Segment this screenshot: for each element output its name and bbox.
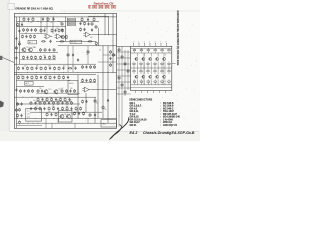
resistor R125 — [88, 40, 89, 42]
wire left bus A — [15, 17, 17, 128]
resistor R508 — [66, 107, 68, 108]
wire frame-to-IC y46 — [117, 45, 131, 47]
resistor R511 — [80, 107, 82, 108]
resistor R116 — [23, 28, 25, 29]
svg-text:0.5: 0.5 — [99, 50, 101, 52]
resistor R260 — [82, 65, 84, 66]
resistor R186 — [113, 53, 115, 54]
resistor R172 — [23, 56, 25, 57]
svg-text:AF 2: AF 2 — [26, 82, 30, 85]
svg-text:6: 6 — [155, 42, 156, 44]
resistor R275 — [19, 108, 21, 109]
IC wire Q10 — [164, 79, 166, 84]
IC inner bottom wire — [131, 87, 172, 89]
svg-text:33k: 33k — [36, 65, 39, 67]
capacitor C258 — [51, 113, 53, 114]
capacitor C171 — [50, 40, 52, 41]
capacitor C503 — [44, 107, 46, 108]
svg-text:6k8: 6k8 — [46, 75, 49, 77]
switch contact box S1c — [67, 22, 75, 24]
wire x78 drop — [77, 75, 79, 119]
wire frame-to-IC y88 — [117, 87, 131, 89]
resistor R272 — [19, 120, 21, 121]
output pair box — [59, 111, 73, 123]
capacitor C204 — [36, 67, 38, 68]
resistor R206 — [45, 66, 47, 67]
resistor R174 — [31, 56, 33, 57]
wire y41 upper — [56, 40, 96, 42]
wire vertical x105 — [104, 14, 106, 36]
resistor R257 — [46, 113, 48, 114]
capacitor C191 — [26, 35, 28, 36]
resistor R236 — [37, 98, 39, 99]
resistor R263 — [94, 65, 96, 66]
wire frame-to-IC y64 — [117, 63, 131, 65]
svg-text:1k5: 1k5 — [33, 100, 36, 102]
capacitor C308 — [54, 76, 56, 77]
IC resistor RQ13 — [133, 63, 135, 64]
resistor R253 — [94, 79, 96, 80]
resistor R117 — [27, 28, 29, 29]
IC resistor RQ4 — [154, 50, 157, 51]
capacitor C261 — [86, 65, 88, 66]
transistor T202 — [54, 90, 58, 94]
capacitor C199 — [61, 28, 63, 29]
capacitor C509 — [71, 107, 73, 108]
svg-text:17k: 17k — [104, 109, 107, 111]
resistor R501 — [35, 107, 37, 108]
svg-text:1k8: 1k8 — [24, 65, 27, 67]
transistor T302 — [67, 115, 71, 119]
resistor R532 — [82, 100, 84, 101]
resistor R239 — [51, 98, 53, 99]
IC resistor RQ20 — [140, 71, 142, 72]
handwritten squiggle — [110, 118, 129, 140]
IC transistor Q2 — [142, 58, 145, 61]
IC wire Q6 — [136, 79, 138, 84]
svg-text:10k: 10k — [50, 22, 53, 24]
capacitor C177 — [44, 56, 46, 57]
IC pointer line — [172, 63, 176, 65]
resistor R230 — [20, 89, 22, 90]
svg-text:6k8: 6k8 — [90, 37, 93, 39]
IC bottom pin stubs — [135, 91, 137, 94]
resistor R250 — [82, 79, 84, 80]
resistor R505 — [53, 107, 55, 108]
wire v x41 top — [40, 17, 42, 34]
svg-text:1k: 1k — [21, 22, 23, 24]
wire lower y86 — [16, 85, 44, 87]
IC inner top wire — [131, 47, 172, 49]
capacitor C166 — [15, 37, 17, 38]
svg-text:100n: 100n — [52, 55, 56, 57]
capacitor C237 — [42, 98, 44, 99]
IC resistor RQ21 — [147, 71, 149, 72]
IC wire Q5 — [164, 62, 166, 68]
resistor R225 — [74, 89, 76, 90]
resistor R184 — [110, 50, 112, 51]
resistor R603 — [127, 69, 129, 70]
capacitor C181 — [91, 28, 93, 29]
svg-text:17k: 17k — [76, 111, 79, 113]
resistor R121 — [44, 48, 46, 49]
resistor R120 — [40, 48, 42, 49]
edge mark upper — [0, 56, 2, 60]
svg-text:4: 4 — [144, 42, 145, 44]
IC wire Q3 — [150, 62, 152, 68]
wire v x88 mid — [87, 46, 89, 64]
svg-text:15k: 15k — [33, 47, 36, 49]
svg-text:GRUNDIG RR 3500 AA-T (4BA-BC): GRUNDIG RR 3500 AA-T (4BA-BC) — [15, 7, 53, 10]
capacitor C243 — [69, 98, 71, 99]
IC resistor RQ18 — [168, 63, 170, 64]
capacitor C245 — [107, 99, 109, 100]
resistor R124 — [60, 40, 61, 42]
resistor R169 — [15, 46, 17, 47]
svg-text:EM 84: EM 84 — [69, 83, 74, 85]
resistor R246 — [102, 106, 104, 107]
wire frame-to-IC y58 — [117, 57, 131, 59]
svg-text:LS 4: LS 4 — [27, 114, 30, 116]
capacitor C122 — [49, 48, 51, 49]
resistor R405 — [53, 101, 55, 102]
svg-text:56k: 56k — [20, 75, 23, 77]
resistor R222 — [61, 89, 63, 90]
bottom page margin — [0, 131, 200, 141]
wire divider lower — [14, 74, 96, 76]
resistor R101 — [23, 16, 25, 18]
capacitor C302 — [27, 76, 29, 77]
resistor R273 — [17, 102, 19, 103]
capacitor C173 — [27, 56, 29, 57]
wire y55 right — [103, 54, 117, 56]
IC rail top — [131, 52, 172, 54]
IC column divider 3 — [163, 53, 165, 85]
IC resistor RQ7 — [133, 81, 136, 82]
IC resistor RQ22 — [154, 71, 156, 72]
IC resistor RQ10 — [154, 81, 157, 82]
wire v x47 top — [46, 17, 48, 34]
wire y45.8 to frame — [58, 45, 117, 47]
IC internals box U301 — [131, 46, 172, 90]
junction dots bottom left — [16, 117, 19, 120]
capacitor C221 — [41, 89, 43, 90]
resistor R402 — [39, 101, 41, 102]
resistor R180 — [91, 22, 93, 23]
wire channel divider — [14, 71, 116, 73]
svg-text:3k3: 3k3 — [56, 28, 59, 30]
capacitor C111 — [87, 18, 89, 19]
svg-text:5k6: 5k6 — [43, 55, 46, 57]
svg-text:47k: 47k — [30, 22, 33, 24]
resistor R406 — [57, 101, 59, 102]
resistor R192 — [30, 35, 32, 36]
resistor R106 — [47, 16, 49, 18]
capacitor C107 — [53, 18, 55, 19]
wire opamp out upper — [92, 34, 117, 36]
left page margin — [0, 0, 9, 141]
wire bottom rail y123 — [16, 122, 116, 124]
capacitor R105 — [42, 18, 44, 19]
wire right col x103 — [102, 46, 104, 119]
svg-text:2u2: 2u2 — [72, 65, 75, 67]
capacitor C271 — [21, 114, 23, 115]
resistor R196 — [87, 50, 89, 51]
svg-text:8: 8 — [166, 42, 167, 44]
resistor R190 — [22, 35, 24, 36]
driver stage box — [68, 81, 78, 95]
resistor R128 — [84, 22, 86, 23]
wire cluster v x119 — [118, 46, 120, 126]
resistor R242 — [64, 98, 66, 99]
op-amp U101 — [46, 34, 51, 39]
capacitor C240 — [55, 98, 57, 99]
IC transistor Q1 — [135, 58, 138, 61]
wire rail y26.5 — [16, 26, 66, 28]
scan speckle — [16, 12, 197, 130]
resistor R238 — [46, 98, 48, 99]
capacitor C231 — [24, 89, 26, 90]
switch contact box S1b — [67, 20, 75, 22]
capacitor C168 — [15, 56, 17, 57]
svg-text:330: 330 — [70, 88, 73, 90]
wire frame-to-IC y76 — [117, 75, 131, 77]
capacitor C129 — [84, 28, 86, 29]
svg-text:18k: 18k — [45, 100, 48, 102]
IC wire Q9 — [157, 79, 159, 84]
capacitor C161 — [44, 29, 46, 30]
IC resistor RQ23 — [161, 71, 163, 72]
svg-text:AF 1: AF 1 — [29, 41, 33, 44]
resistor R200 — [18, 66, 20, 67]
wire second rail — [16, 21, 99, 23]
resistor R175 — [35, 56, 37, 57]
IC transistor Q3 — [149, 58, 152, 61]
IC wire Q4 — [157, 62, 159, 68]
wire y59.8 — [20, 59, 56, 61]
wire right col x98 low — [97, 75, 99, 119]
svg-text:2.5-: 2.5- — [27, 111, 30, 113]
IC resistor RQ17 — [161, 63, 163, 64]
resistor R203 — [31, 66, 33, 67]
wire frame-to-IC y52 — [117, 51, 131, 53]
IC resistor RQ16 — [154, 63, 156, 64]
connector box bottom right — [101, 120, 116, 127]
capacitor C305 — [40, 76, 42, 77]
junction dots upper — [23, 15, 26, 18]
paper background — [0, 0, 200, 141]
svg-text:4k7: 4k7 — [96, 103, 99, 105]
svg-text:8n2: 8n2 — [66, 106, 69, 108]
resistor R176 — [40, 56, 42, 57]
IC wire Q1 — [136, 62, 138, 68]
transistor T103 — [61, 35, 64, 38]
corner sticker square — [8, 3, 14, 9]
transistor T104 — [65, 35, 68, 38]
capacitor C185 — [110, 57, 112, 58]
transistor T301 — [60, 115, 64, 119]
wire frame-to-IC y70 — [117, 69, 131, 71]
IC wire Q8 — [150, 79, 152, 84]
svg-text:2k2: 2k2 — [40, 22, 43, 24]
resistor R244 — [94, 99, 96, 100]
wire vertical x113 — [112, 14, 114, 73]
svg-text:2k7: 2k7 — [69, 100, 72, 102]
resistor R150 — [17, 23, 19, 24]
resistor R123 — [53, 48, 55, 49]
wire rail y104 lower — [16, 103, 80, 105]
resistor R179 — [53, 56, 55, 57]
wire vertical x108.5 — [108, 16, 110, 35]
wire x108 horiz — [88, 15, 109, 17]
capacitor C151 — [21, 23, 23, 24]
IC wire Q7 — [143, 79, 145, 84]
capacitor C207 — [49, 67, 51, 68]
wire rail y64 — [14, 63, 96, 65]
capacitor C197 — [77, 58, 79, 59]
capacitor C115 — [18, 29, 20, 30]
IC rail mid — [131, 67, 172, 69]
wire cluster v x128 — [127, 50, 129, 90]
wire bottom rail y118 — [14, 117, 116, 119]
resistor R309 — [58, 75, 60, 76]
resistor R605 — [121, 83, 123, 84]
IC resistor RQ1 — [133, 50, 136, 51]
IC resistor RQ12 — [168, 81, 171, 82]
wire opamp out lower — [91, 89, 117, 91]
resistor R502 — [39, 107, 41, 108]
wire x86 drop — [85, 93, 87, 112]
faint page crease — [60, 10, 200, 12]
op-amp U102 — [57, 34, 62, 39]
IC resistor RQ2 — [140, 50, 143, 51]
resistor R127 — [80, 28, 82, 29]
svg-text:12k: 12k — [34, 75, 37, 77]
IC top pin stubs — [133, 44, 135, 47]
resistor R602 — [124, 62, 126, 63]
resistor R510 — [75, 107, 77, 108]
page left edge — [8, 0, 10, 131]
IC resistor RQ3 — [147, 50, 150, 51]
resistor R252 — [90, 79, 92, 80]
capacitor C255 — [78, 112, 80, 113]
svg-text:68k: 68k — [25, 33, 28, 35]
resistor R223 — [66, 89, 68, 90]
capacitor C401 — [35, 101, 37, 102]
resistor R220 — [37, 89, 39, 90]
op-amp U103 — [85, 32, 90, 37]
wire bottom mid y112 — [30, 111, 102, 113]
IC resistor RQ14 — [140, 63, 142, 64]
wire x95 drop — [94, 97, 96, 123]
resistor R208 — [54, 66, 56, 67]
svg-text:10u: 10u — [18, 41, 21, 43]
IC transistor Q8 — [149, 75, 152, 78]
component value labels — [18, 22, 114, 113]
capacitor C213 — [75, 67, 77, 68]
watermark line2 (red CJK blocks) — [89, 5, 117, 8]
switch contact box S1d — [67, 24, 75, 26]
IC transistor Q7 — [142, 75, 145, 78]
resistor R254 — [74, 112, 76, 113]
svg-text:2: 2 — [133, 42, 134, 44]
resistor R205 — [40, 66, 42, 67]
resistor R259 — [55, 113, 57, 114]
IC transistor Q6 — [135, 75, 138, 78]
wire y101.5 — [36, 101, 72, 103]
transistor T201 — [44, 90, 48, 94]
svg-text:4k7: 4k7 — [60, 22, 63, 24]
svg-text:75: 75 — [36, 106, 38, 108]
svg-text:7: 7 — [160, 42, 161, 44]
resistor R130 — [95, 42, 97, 43]
IC resistor RQ9 — [147, 81, 150, 82]
svg-text:RadioFans.CN: RadioFans.CN — [94, 1, 114, 5]
bottom rail ticks — [45, 118, 47, 128]
junction dots lower — [17, 71, 20, 74]
capacitor C234 — [15, 88, 17, 89]
IC wire Q2 — [143, 62, 145, 68]
IC resistor RQ11 — [161, 81, 164, 82]
svg-text:25V: 25V — [111, 62, 114, 64]
resistor R212 — [68, 67, 69, 69]
transistor T102 — [29, 48, 33, 52]
IC transistor Q9 — [156, 75, 159, 78]
page bottom edge — [9, 130, 199, 132]
wire y93 lower — [36, 92, 80, 94]
resistor R304 — [36, 75, 38, 76]
wire vertical x98.7 — [98, 28, 100, 46]
capacitor C251 — [86, 79, 88, 80]
capacitor C195 — [72, 53, 74, 54]
capacitor C407 — [62, 101, 64, 102]
capacitor C201 — [22, 67, 24, 68]
svg-text:40k: 40k — [86, 54, 89, 56]
resistor R400 — [30, 101, 32, 102]
IC resistor RQ15 — [147, 63, 149, 64]
resistor R403 — [44, 101, 46, 102]
resistor R235 — [15, 108, 17, 109]
wire y33 upper — [20, 33, 46, 35]
wire v x68 mid — [67, 46, 69, 73]
resistor R110 — [81, 18, 83, 19]
resistor R306 — [45, 75, 47, 76]
wire frame-to-IC y82 — [117, 81, 131, 83]
resistor R167 — [18, 42, 20, 43]
capacitor C210 — [63, 67, 65, 68]
input pointer diagonal — [3, 58, 15, 63]
wire y82.7 — [80, 82, 96, 84]
wire frame-to-IC y94 — [117, 93, 131, 95]
resistor R209 — [58, 66, 60, 67]
svg-text:470: 470 — [48, 65, 51, 67]
resistor R303 — [31, 75, 33, 76]
wire v x53 top — [52, 17, 54, 34]
IC resistor RQ5 — [161, 50, 164, 51]
resistor R262 — [90, 65, 92, 66]
wire y62 right — [98, 61, 117, 63]
svg-text:0-16: 0-16 — [27, 117, 30, 119]
op-amp U201 — [84, 87, 89, 92]
wire right col x108 — [107, 46, 109, 123]
wire top inner rail — [14, 16, 116, 18]
capacitor C531 — [94, 113, 96, 114]
resistor R300 — [18, 75, 20, 76]
resistor R301 — [22, 75, 24, 76]
transistor T101 — [22, 48, 26, 52]
svg-text:NF 204: NF 204 — [71, 42, 76, 44]
wire lower y80 — [16, 79, 70, 81]
